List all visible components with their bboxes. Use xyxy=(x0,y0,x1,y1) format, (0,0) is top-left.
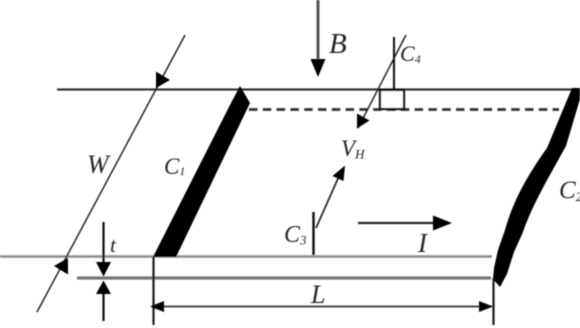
svg-text:W: W xyxy=(87,150,111,179)
dimension W bottom arrowhead xyxy=(54,258,68,275)
svg-text:L: L xyxy=(310,280,325,309)
dimension L right extension line xyxy=(492,278,494,325)
arrow B head xyxy=(311,59,326,77)
dimension L line xyxy=(152,306,492,308)
arrow I (current) shaft xyxy=(358,222,437,224)
dimension t upper arrow xyxy=(102,222,104,266)
arrow I head xyxy=(433,216,452,231)
wire: front bottom edge line xyxy=(77,276,491,279)
dimension t lower arrow xyxy=(102,290,104,321)
contact C4 pin line xyxy=(393,37,395,90)
wire: hidden back bottom edge (dashed) xyxy=(249,108,559,111)
wire: top back edge line xyxy=(57,88,573,90)
contact C3 pin line xyxy=(312,212,314,255)
wire: front top edge line xyxy=(0,255,492,257)
dimension W line xyxy=(37,35,185,312)
arrow B (magnetic field) shaft xyxy=(317,0,320,62)
dimension L right arrowhead xyxy=(479,301,493,312)
contact C2 (black electrode bar) xyxy=(493,88,580,287)
contact C1 (black electrode bar) xyxy=(153,86,250,257)
arrow VH head xyxy=(333,166,346,182)
dimension L left extension line xyxy=(152,257,154,325)
dimension L left arrowhead xyxy=(150,301,164,312)
arrow from C4 head xyxy=(357,114,370,129)
svg-text:B: B xyxy=(329,28,347,60)
dimension W top arrowhead xyxy=(156,72,170,89)
contact C4 square pad xyxy=(380,90,404,109)
arrow from C4 (slanted) shaft xyxy=(358,35,406,128)
arrow VH shaft xyxy=(316,174,340,228)
